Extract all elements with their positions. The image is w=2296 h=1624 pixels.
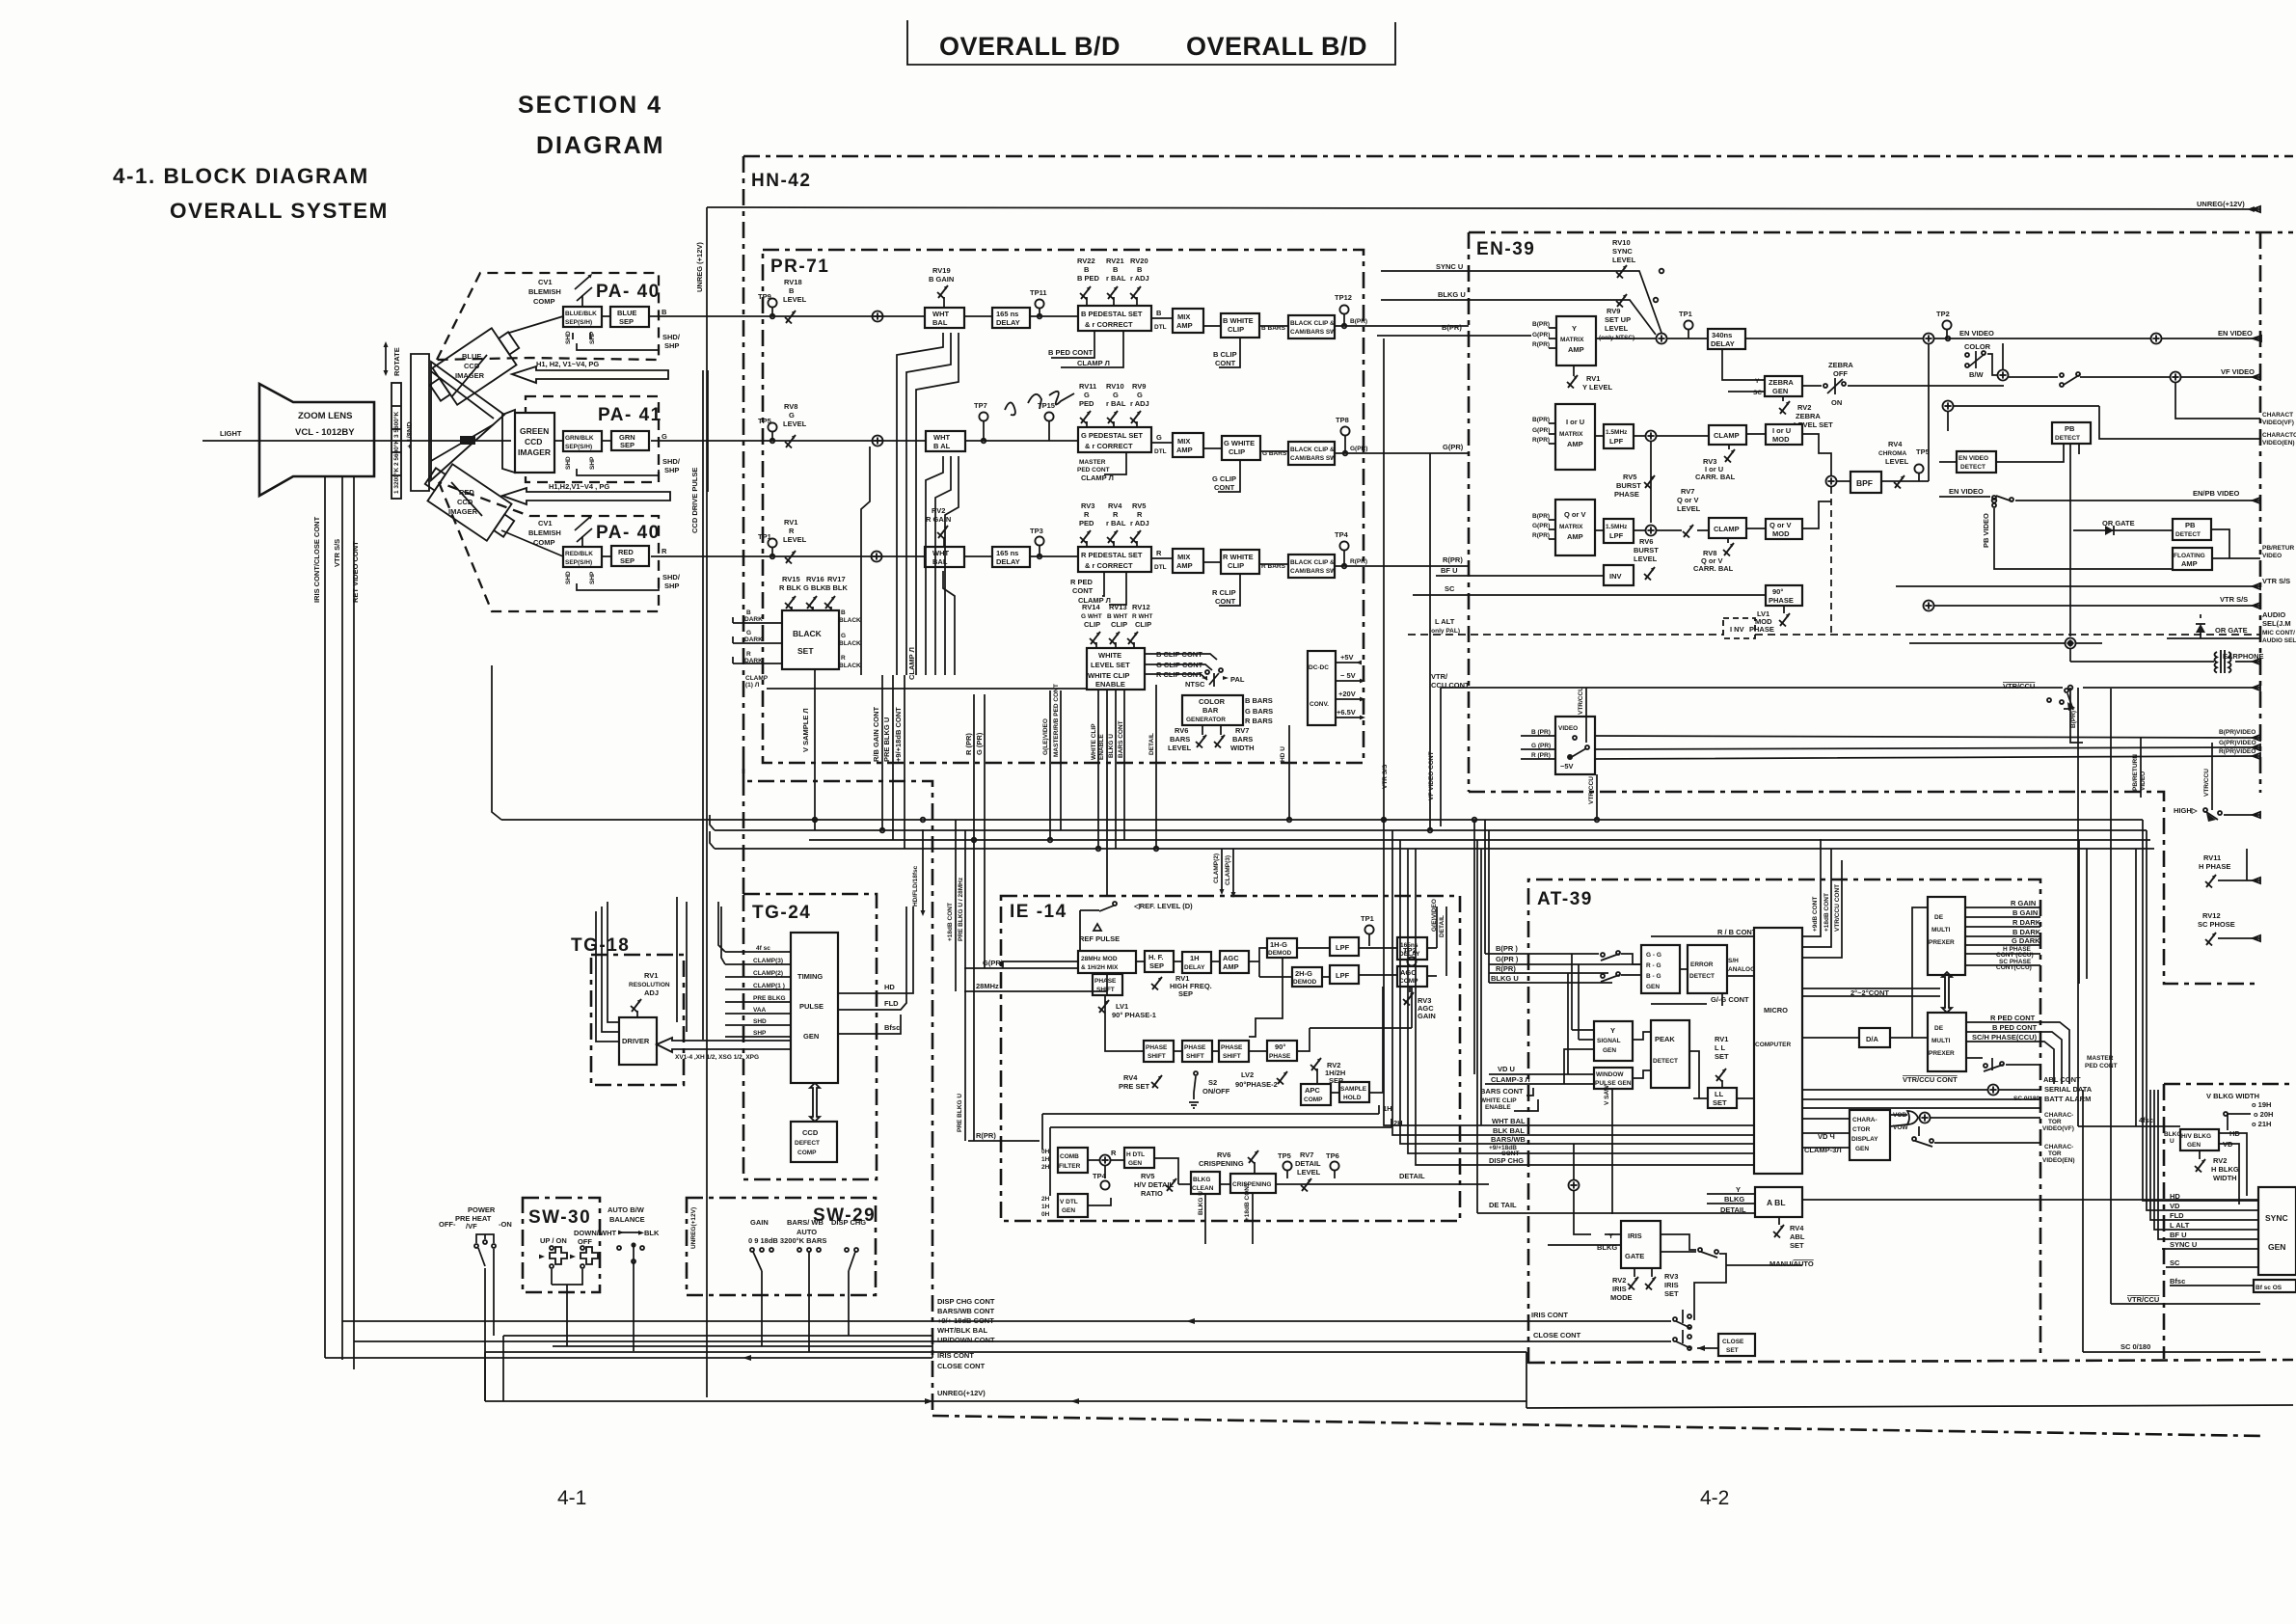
- wires d/a: [1802, 907, 1928, 1038]
- svg-text:DETAIL: DETAIL: [1399, 1172, 1425, 1180]
- svg-text:ON: ON: [1831, 398, 1842, 407]
- box PEAK DETECT: [1651, 1020, 1689, 1088]
- HN-42 top border: [743, 155, 2293, 158]
- svg-text:GAIN: GAIN: [1418, 1012, 1436, 1020]
- svg-text:CAM/BARS SW: CAM/BARS SW: [1290, 455, 1337, 462]
- svg-text:MOD: MOD: [1772, 435, 1790, 444]
- box BPF: [1850, 472, 1881, 493]
- svg-text:GEN: GEN: [1128, 1160, 1142, 1167]
- wires voltages: [1336, 663, 1362, 717]
- hollow arrow XV1-4: [657, 1038, 791, 1052]
- box R WHITE CLIP: [1221, 550, 1259, 574]
- dashed chroma frame: [1830, 487, 1832, 635]
- svg-text:B PED: B PED: [1077, 274, 1100, 283]
- wire zebra feed: [1722, 349, 1765, 392]
- svg-text:OVERALL B/D: OVERALL B/D: [939, 32, 1121, 61]
- pot RV5 H/V DETAIL RATIO: [1166, 1178, 1176, 1192]
- switch vtr ccu: [2065, 689, 2068, 692]
- svg-text:UNREG(+12V): UNREG(+12V): [2197, 200, 2245, 208]
- svg-text:LEVEL: LEVEL: [1612, 256, 1636, 264]
- box I or U MATRIX AMP: [1555, 404, 1595, 470]
- svg-text:H. F.: H. F.: [1148, 953, 1163, 961]
- pot RV6 CRISPENING: [1248, 1150, 1258, 1164]
- svg-text:TP8: TP8: [1336, 416, 1349, 424]
- svg-text:B: B: [789, 286, 795, 295]
- svg-text:SC: SC: [2170, 1259, 2180, 1267]
- sum node B: [873, 311, 883, 322]
- box D/A: [1859, 1028, 1890, 1047]
- wires sync inputs: [2143, 1090, 2258, 1286]
- svg-text:DISPLAY: DISPLAY: [1851, 1136, 1878, 1143]
- svg-text:4-1: 4-1: [557, 1487, 586, 1509]
- svg-text:VF VIDEO CONT: VF VIDEO CONT: [1428, 751, 1435, 800]
- svg-text:G BLK: G BLK: [803, 583, 826, 592]
- svg-text:B - G: B - G: [1646, 973, 1661, 980]
- svg-text:SYNC U: SYNC U: [1436, 262, 1463, 271]
- EN-39 border top: [1469, 231, 2293, 234]
- svg-text:CLIP: CLIP: [1228, 325, 1244, 334]
- svg-text:FLD: FLD: [2170, 1211, 2184, 1220]
- svg-text:R PED CONT: R PED CONT: [1990, 1014, 2036, 1022]
- wires window: [1633, 1070, 1651, 1078]
- svg-text:SAMPLE: SAMPLE: [1340, 1086, 1367, 1093]
- box CLAMP I: [1709, 425, 1746, 445]
- svg-text:340ns: 340ns: [1712, 331, 1732, 339]
- red ccd imager body: [419, 458, 522, 548]
- svg-text:EN VIDEO: EN VIDEO: [2218, 329, 2253, 338]
- svg-text:MASTER: MASTER: [2087, 1055, 2114, 1062]
- wire g clip cont: [1218, 460, 1240, 492]
- svg-text:RV1: RV1: [1715, 1035, 1728, 1043]
- box 28MHz MOD 1H/2H MIX: [1078, 951, 1136, 973]
- svg-text:G: G: [841, 633, 846, 639]
- svg-text:o 19H: o 19H: [2252, 1100, 2271, 1109]
- box MIX AMP B: [1173, 309, 1203, 333]
- svg-text:VD Ч: VD Ч: [1818, 1132, 1835, 1141]
- svg-text:BLKG: BLKG: [1724, 1195, 1744, 1204]
- box B WHITE CLIP: [1221, 313, 1259, 338]
- svg-text:BLACK: BLACK: [839, 640, 861, 647]
- svg-text:CLAMP: CLAMP: [745, 675, 769, 682]
- svg-text:COMB: COMB: [1060, 1153, 1079, 1160]
- red sep box: [611, 546, 649, 566]
- wires pb return: [2070, 482, 2260, 636]
- wire vtr ss r1: [1896, 585, 2260, 587]
- svg-text:RV7: RV7: [1681, 487, 1694, 496]
- svg-text:GREEN: GREEN: [520, 426, 549, 436]
- svg-text:G(PR): G(PR): [1350, 446, 1367, 452]
- box WHITE LEVEL SET: [1087, 648, 1145, 690]
- svg-text:MICRO: MICRO: [1764, 1006, 1788, 1015]
- svg-text:G WHITE: G WHITE: [1224, 439, 1255, 447]
- switch ref level: [1113, 902, 1117, 906]
- svg-text:Y: Y: [1608, 1232, 1613, 1240]
- svg-text:G(PR)VIDEO: G(PR)VIDEO: [2219, 740, 2256, 746]
- wire vtr ccu sg: [2111, 689, 2260, 1304]
- svg-text:2H: 2H: [1041, 1196, 1050, 1203]
- box BLACK SET: [782, 610, 839, 669]
- box WHT BAL R: [925, 547, 964, 567]
- wires bars cont hooks: [1514, 1088, 1538, 1111]
- svg-text:UNREG(+12V): UNREG(+12V): [937, 1389, 986, 1397]
- SECTION: header: [113, 20, 1729, 1509]
- wire blkg: [1381, 300, 1656, 335]
- svg-text:+9/+ 18dB CONT: +9/+ 18dB CONT: [937, 1316, 994, 1325]
- wires phase row: [1105, 958, 1412, 1051]
- wire light through lens: [259, 440, 511, 442]
- svg-text:− 5V: − 5V: [1340, 671, 1356, 680]
- IE-14 border: [1001, 896, 1460, 1221]
- svg-text:LEVEL: LEVEL: [1168, 744, 1192, 752]
- switch master ped: [1984, 1064, 1987, 1068]
- svg-text:PED: PED: [1079, 519, 1094, 528]
- SECTION: at39: [342, 839, 2293, 1356]
- svg-text:DRIVER: DRIVER: [622, 1037, 650, 1045]
- box 90 PHASE: [1766, 585, 1802, 606]
- SW-29 border: [687, 1198, 876, 1295]
- svg-text:28MHz: 28MHz: [976, 982, 999, 990]
- svg-text:GEN: GEN: [1646, 984, 1660, 990]
- svg-text:BF U: BF U: [1441, 566, 1458, 575]
- wire blue row: [602, 315, 610, 317]
- svg-text:RV5: RV5: [1132, 501, 1146, 510]
- box DE MULTI PREXER upper: [1928, 897, 1965, 975]
- testpoint TP5 en39: [1914, 464, 1923, 473]
- svg-text:VTR S/S: VTR S/S: [1382, 764, 1389, 789]
- wires v dtl: [1088, 1158, 1191, 1205]
- wires green row: [554, 440, 563, 442]
- prism-green coupler: [502, 410, 515, 473]
- svg-text:RV22: RV22: [1077, 257, 1095, 265]
- svg-text:H DTL: H DTL: [1126, 1151, 1145, 1158]
- svg-text:TOR: TOR: [2048, 1150, 2062, 1157]
- svg-text:CTOR: CTOR: [1852, 1126, 1871, 1133]
- svg-text:+6.5V: +6.5V: [1337, 708, 1356, 717]
- svg-text:BLEMISH: BLEMISH: [528, 528, 561, 537]
- wire chroma up to en sum: [1928, 344, 1930, 481]
- svg-text:MIX: MIX: [1177, 553, 1190, 561]
- svg-text:A BL: A BL: [1767, 1198, 1786, 1207]
- svg-text:2°~2°CONT: 2°~2°CONT: [1850, 988, 1889, 997]
- prism internal edge 2: [431, 424, 494, 461]
- svg-text:R: R: [1111, 1149, 1117, 1157]
- wires y signal: [1564, 954, 1651, 1084]
- wires toggles down: [552, 1269, 582, 1346]
- svg-text:R(PR): R(PR): [976, 1131, 996, 1140]
- HN-42 left border: [743, 156, 745, 894]
- svg-text:DTL: DTL: [1154, 564, 1167, 571]
- wires apc sample: [1317, 987, 1383, 1093]
- or gate char: [1907, 1111, 1918, 1124]
- wire ccd drive pulse pair: [702, 370, 704, 1040]
- svg-text:MATRIX: MATRIX: [1559, 524, 1583, 530]
- wire G row: [651, 440, 926, 442]
- svg-text:G(LE)VIDEO: G(LE)VIDEO: [1042, 718, 1049, 755]
- svg-text:PED CONT: PED CONT: [1077, 467, 1110, 474]
- svg-text:SHD/: SHD/: [662, 573, 681, 582]
- svg-text:VTR S/S: VTR S/S: [2262, 577, 2290, 585]
- svg-text:DIAGRAM: DIAGRAM: [536, 132, 664, 159]
- svg-text:PHASE: PHASE: [1184, 1044, 1206, 1051]
- wire prism to red: [451, 482, 482, 516]
- svg-text:VTR/CCU: VTR/CCU: [2003, 682, 2035, 690]
- wire b clip cont: [1219, 338, 1240, 367]
- box INV dashed: [1723, 618, 1755, 638]
- svg-text:IRIS: IRIS: [1664, 1281, 1679, 1289]
- svg-text:CONT: CONT: [1215, 359, 1236, 367]
- wire earphone row: [1909, 642, 2065, 644]
- svg-text:BPF: BPF: [1856, 478, 1873, 488]
- svg-text:IRIS: IRIS: [1612, 1285, 1627, 1293]
- wire at39 row corners: [1384, 820, 1485, 1165]
- svg-text:RV7: RV7: [1235, 726, 1249, 735]
- sum node char: [1943, 401, 1954, 412]
- svg-text:RV19: RV19: [932, 266, 951, 275]
- svg-text:BLK BAL: BLK BAL: [1493, 1126, 1525, 1135]
- svg-text:DE: DE: [1934, 1025, 1944, 1032]
- svg-text:BLACK CLIP &: BLACK CLIP &: [1290, 447, 1335, 453]
- svg-text:VTR/CCU: VTR/CCU: [1578, 687, 1584, 715]
- title tab box: [907, 20, 1395, 65]
- wire bf: [1436, 575, 1604, 577]
- svg-text:LL: LL: [1715, 1090, 1724, 1098]
- wire vtr ccu row: [1441, 687, 2063, 689]
- svg-text:ENABLE: ENABLE: [1485, 1104, 1511, 1111]
- svg-text:SET: SET: [1715, 1052, 1729, 1061]
- svg-text:EN-39: EN-39: [1476, 239, 1535, 259]
- wire detail vertical: [1155, 685, 1157, 764]
- pot RV4 PRE SET: [1151, 1075, 1162, 1089]
- svg-text:SHP: SHP: [753, 1030, 767, 1037]
- svg-text:1.5MHz: 1.5MHz: [1606, 429, 1628, 436]
- red/blk sep box: [563, 547, 602, 567]
- wire vtr ss r2: [1934, 605, 2260, 607]
- box WINDOW PULSE GEN: [1594, 1068, 1633, 1089]
- svg-text:IE -14: IE -14: [1010, 902, 1067, 922]
- testpoint TP15: [1044, 412, 1053, 420]
- svg-text:RV1: RV1: [1586, 374, 1600, 383]
- svg-text:MOD: MOD: [1772, 529, 1790, 538]
- svg-text:+ 1/8ND: + 1/8ND: [405, 421, 414, 448]
- svg-text:L ALT: L ALT: [1435, 617, 1455, 626]
- wire iris cont: [342, 1320, 1671, 1322]
- svg-text:B AL: B AL: [933, 442, 951, 450]
- box Y MATRIX AMP: [1556, 316, 1596, 365]
- triangle ref pulse: [1094, 924, 1101, 931]
- svg-text:ENABLE: ENABLE: [1095, 680, 1125, 689]
- prism internal edge 1: [431, 371, 494, 419]
- svg-text:PRE BLKG U / 28MHz: PRE BLKG U / 28MHz: [958, 877, 964, 941]
- svg-text:G(PR): G(PR): [1532, 523, 1550, 529]
- svg-text:WHT BAL: WHT BAL: [1492, 1117, 1526, 1125]
- svg-text:RV14: RV14: [1082, 603, 1100, 611]
- svg-text:B CLIP: B CLIP: [1213, 350, 1237, 359]
- svg-text:& r CORRECT: & r CORRECT: [1085, 442, 1133, 450]
- svg-text:D/A: D/A: [1866, 1035, 1879, 1043]
- svg-text:G(PR): G(PR): [1532, 427, 1550, 434]
- svg-text:RV17: RV17: [827, 575, 846, 583]
- svg-text:1H-G: 1H-G: [1270, 940, 1287, 949]
- svg-text:B GAIN: B GAIN: [929, 275, 954, 284]
- box LPF 1: [1330, 937, 1359, 956]
- svg-text:B(PR): B(PR): [1442, 323, 1462, 332]
- wire hd vertical: [1288, 725, 1290, 764]
- bus collector vertical x967: [932, 1331, 933, 1358]
- svg-text:OVERALL SYSTEM: OVERALL SYSTEM: [170, 199, 389, 223]
- wire iris cont/close cont vertical: [324, 476, 326, 1358]
- svg-text:AMP: AMP: [1223, 962, 1239, 971]
- svg-text:APC: APC: [1305, 1086, 1320, 1095]
- wire close set: [1697, 1347, 1718, 1349]
- svg-text:WHITE: WHITE: [1098, 651, 1121, 660]
- svg-text:MULTI: MULTI: [1931, 927, 1951, 934]
- svg-text:PB: PB: [2185, 521, 2196, 529]
- svg-text:CAM/BARS SW: CAM/BARS SW: [1290, 329, 1337, 336]
- testpoint TP3: [1035, 536, 1043, 545]
- svg-text:COMP: COMP: [533, 297, 555, 306]
- svg-text:XV1-4 ,XH 1/2, XSG 1/2, XPG: XV1-4 ,XH 1/2, XSG 1/2, XPG: [675, 1054, 759, 1061]
- svg-text:VD: VD: [2170, 1202, 2180, 1210]
- svg-text:TP11: TP11: [1030, 288, 1047, 297]
- svg-text:SHP: SHP: [589, 456, 596, 470]
- svg-text:AT-39: AT-39: [1537, 889, 1593, 909]
- sum char: [1920, 1113, 1931, 1123]
- svg-text:TP4: TP4: [1335, 530, 1349, 539]
- svg-text:MATRIX: MATRIX: [1559, 431, 1583, 438]
- svg-text:RV6: RV6: [1217, 1150, 1230, 1159]
- svg-text:OR GATE: OR GATE: [2215, 626, 2248, 635]
- svg-text:DARK: DARK: [744, 636, 763, 643]
- svg-text:o 21H: o 21H: [2252, 1120, 2271, 1128]
- svg-text:INV: INV: [1609, 572, 1622, 581]
- vertical wires timing to top: [677, 897, 687, 1032]
- wire clamp-3: [1485, 1083, 1594, 1085]
- svg-text:V SAMPLE Л: V SAMPLE Л: [801, 708, 810, 752]
- wire sync: [1381, 271, 1661, 333]
- svg-text:Y: Y: [1736, 1185, 1741, 1194]
- svg-text:CONT: CONT: [1214, 483, 1235, 492]
- svg-text:PB/RETURN: PB/RETURN: [2132, 754, 2139, 791]
- svg-text:PB VIDEO: PB VIDEO: [1982, 513, 1990, 548]
- wires mod outs to sum: [1802, 434, 1831, 528]
- svg-text:LPF: LPF: [1609, 437, 1624, 446]
- svg-text:MIC CONT/: MIC CONT/: [2262, 630, 2295, 636]
- box 165ns DELAY B: [992, 308, 1030, 328]
- svg-text:LEVEL: LEVEL: [783, 420, 807, 428]
- testpoint TP1: [768, 538, 776, 547]
- junction dots: [770, 269, 2073, 852]
- svg-text:MANU/AUTO: MANU/AUTO: [1769, 1259, 1814, 1268]
- bus wire y850: [501, 819, 2040, 821]
- wires those: [1802, 1099, 2040, 1108]
- svg-text:WIDTH: WIDTH: [1230, 744, 1255, 752]
- svg-text:I or U: I or U: [1566, 418, 1584, 426]
- wires demux lower out: [1966, 1022, 2069, 1084]
- svg-text:DE TAIL: DE TAIL: [1489, 1201, 1517, 1209]
- wire bfsc out: [838, 1015, 901, 1034]
- svg-text:UNREG (+12V): UNREG (+12V): [695, 242, 704, 292]
- wires ie chain row1: [1136, 948, 1437, 977]
- SECTION: en39: [1377, 238, 2296, 830]
- wire detail long to abl: [1477, 1212, 1489, 1214]
- wire vd: [1489, 1073, 1594, 1075]
- wire bpr into matrix: [1377, 335, 1531, 337]
- svg-text:DISP CHG: DISP CHG: [1489, 1156, 1524, 1165]
- sum node comb: [1100, 1155, 1111, 1166]
- svg-text:CHARAC-: CHARAC-: [2044, 1112, 2073, 1119]
- EN-39 border right: [2259, 232, 2262, 793]
- svg-text:2H-G: 2H-G: [1295, 969, 1312, 978]
- svg-text:SHP: SHP: [589, 331, 596, 344]
- svg-text:DTL: DTL: [1154, 324, 1167, 331]
- svg-text:DETECT: DETECT: [1960, 464, 1985, 471]
- svg-text:OVERALL B/D: OVERALL B/D: [1186, 32, 1367, 61]
- svg-text:1H: 1H: [1041, 1204, 1050, 1210]
- svg-text:WHITE CLIP: WHITE CLIP: [1088, 671, 1129, 680]
- wires dark in: [733, 617, 782, 663]
- svg-text:LPF: LPF: [1336, 943, 1350, 952]
- box WHT BAL G: [926, 431, 965, 451]
- svg-text:DETAIL: DETAIL: [1439, 915, 1445, 937]
- svg-text:DELAY: DELAY: [1711, 339, 1735, 348]
- svg-text:R WHT: R WHT: [1132, 613, 1152, 620]
- svg-text:TP1: TP1: [1361, 914, 1374, 923]
- svg-text:R - G: R - G: [1646, 962, 1661, 969]
- wire 4fsc: [2078, 849, 2180, 1126]
- svg-text:CV1: CV1: [538, 278, 553, 286]
- switch err2: [1601, 974, 1605, 978]
- pot RV3 I or U CARR BAL: [1724, 449, 1735, 463]
- svg-text:BLKG U: BLKG U: [1438, 290, 1466, 299]
- svg-text:PHASE: PHASE: [1749, 625, 1774, 634]
- svg-text:ZOOM LENS: ZOOM LENS: [298, 411, 352, 421]
- svg-text:I or U: I or U: [1772, 426, 1791, 435]
- svg-text:R PED: R PED: [1070, 578, 1094, 586]
- svg-text:BLACK: BLACK: [793, 629, 823, 638]
- svg-text:CLAMP: CLAMP: [1714, 431, 1740, 440]
- svg-text:WHT: WHT: [600, 1229, 616, 1237]
- svg-text:TP1: TP1: [1679, 310, 1692, 318]
- svg-text:CLAMP(3): CLAMP(3): [1225, 855, 1231, 885]
- pot RV2 H BLKG WIDTH: [2195, 1159, 2205, 1173]
- svg-text:CLIP: CLIP: [1229, 447, 1245, 456]
- SECTION: ie14: [947, 820, 1489, 1244]
- wire ret video cont vertical: [353, 476, 355, 1369]
- svg-text:MIX: MIX: [1177, 437, 1190, 446]
- svg-text:DELAY: DELAY: [1184, 964, 1205, 971]
- svg-text:SEP: SEP: [1149, 961, 1164, 970]
- svg-text:BARS CONT: BARS CONT: [1480, 1087, 1524, 1096]
- svg-text:BAL: BAL: [932, 318, 948, 327]
- testpoint TP9: [768, 298, 776, 307]
- svg-text:B BARS: B BARS: [1245, 696, 1273, 705]
- svg-text:H BLKG: H BLKG: [2211, 1165, 2239, 1174]
- PA-41 border: [526, 396, 659, 482]
- svg-text:RV9: RV9: [1607, 307, 1620, 315]
- svg-text:G - G: G - G: [1646, 952, 1661, 959]
- svg-text:BLKG: BLKG: [1193, 1177, 1210, 1183]
- wire en/pb video row: [1939, 496, 1990, 498]
- svg-text:R(PR): R(PR): [1532, 437, 1550, 444]
- svg-text:r BAL: r BAL: [1106, 399, 1126, 408]
- svg-text:B PED CONT: B PED CONT: [1048, 348, 1094, 357]
- svg-text:B: B: [1084, 265, 1090, 274]
- blue/blk sep box: [563, 307, 602, 327]
- wire unreg top: [707, 207, 2260, 209]
- svg-text:R(PR): R(PR): [1443, 555, 1463, 564]
- svg-text:PRE BLKG: PRE BLKG: [753, 995, 786, 1002]
- testpoint TP6 ie: [1330, 1161, 1338, 1170]
